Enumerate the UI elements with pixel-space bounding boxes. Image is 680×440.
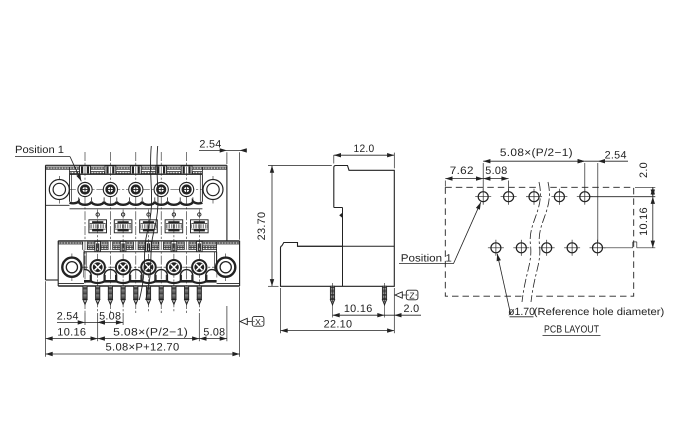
dimension 2.54 (row offset) bbox=[57, 310, 105, 324]
svg-text:12.0: 12.0 bbox=[354, 143, 375, 155]
svg-text:PCB LAYOUT: PCB LAYOUT bbox=[544, 325, 600, 336]
svg-text:10.16: 10.16 bbox=[344, 303, 373, 315]
dimension 23.70 (side view height) bbox=[256, 166, 332, 287]
dimension 5.08 (pcb pitch) bbox=[483, 165, 508, 191]
svg-text:2.0: 2.0 bbox=[638, 162, 650, 178]
datum flag Z bbox=[395, 290, 418, 300]
front view: break lines bbox=[139, 146, 158, 300]
dimension 2.54 (front view top right) bbox=[199, 139, 247, 240]
svg-text:22.10: 22.10 bbox=[324, 318, 353, 330]
dimension 5.08 (pin pitch) bbox=[98, 310, 123, 324]
svg-text:2.0: 2.0 bbox=[404, 303, 420, 315]
front view: lower row contacts bbox=[91, 260, 207, 274]
dimension 22.10 (side view overall) bbox=[281, 288, 395, 333]
svg-text:2.54: 2.54 bbox=[199, 139, 221, 151]
dimension 5.08x(P/2-1) (pcb) bbox=[483, 147, 585, 191]
svg-text:Z: Z bbox=[409, 291, 415, 301]
svg-text:2.54: 2.54 bbox=[605, 149, 627, 161]
svg-text:5.08×(P/2−1): 5.08×(P/2−1) bbox=[113, 326, 188, 338]
svg-text:7.62: 7.62 bbox=[450, 165, 474, 177]
dimension 5.08 (front view right) bbox=[199, 326, 227, 340]
front view: centerlines bbox=[52, 152, 235, 313]
front view: lower row polarizing tabs bbox=[95, 241, 202, 251]
front view: lower connector housing outline bbox=[58, 241, 239, 286]
svg-text:5.08×(P/2−1): 5.08×(P/2−1) bbox=[500, 147, 573, 159]
dimension 7.62 (pcb) bbox=[445, 165, 483, 187]
svg-text:Position 1: Position 1 bbox=[15, 144, 64, 156]
front view: upper row contacts bbox=[78, 182, 194, 196]
pcb layout: break lines bbox=[522, 182, 549, 302]
front view: wire clamp hatched openings bbox=[89, 220, 208, 233]
svg-text:Position 1: Position 1 bbox=[401, 252, 452, 264]
pcb layout: board outline (dashed) bbox=[445, 187, 633, 296]
front view: upper mounting bushings bbox=[49, 180, 223, 200]
leader: Position 1 (pcb) bbox=[399, 202, 481, 264]
front view: upper shroud scalloped edge bbox=[70, 197, 203, 208]
svg-text:5.08: 5.08 bbox=[99, 310, 121, 322]
front view: lower mounting bushings bbox=[62, 258, 235, 277]
front view: lower shroud striped band bbox=[58, 242, 239, 278]
svg-text:10.16: 10.16 bbox=[57, 326, 86, 338]
front view: upper-pin slots in lower band bbox=[83, 242, 189, 250]
svg-text:2.54: 2.54 bbox=[57, 310, 79, 322]
front view: wire entry pilot holes bbox=[96, 213, 201, 216]
front view: upper row polarizing tabs bbox=[80, 166, 192, 174]
front view: lower shroud pockets and arches bbox=[78, 270, 219, 283]
side view: solder pins bbox=[330, 283, 386, 318]
leader: hole diameter note bbox=[497, 254, 665, 319]
svg-text:5.08×P+12.70: 5.08×P+12.70 bbox=[106, 342, 180, 354]
caption: PCB LAYOUT bbox=[543, 325, 601, 336]
svg-text:(Reference hole diameter): (Reference hole diameter) bbox=[534, 307, 665, 318]
svg-text:10.16: 10.16 bbox=[638, 207, 650, 236]
pcb layout: hole pattern bbox=[475, 189, 605, 256]
datum flag X bbox=[240, 317, 264, 327]
dimension 2.54 (pcb) bbox=[578, 149, 628, 242]
dimension 10.16 (pcb rows) bbox=[604, 197, 655, 248]
dimension 5.08xP+12.70 (overall width) bbox=[46, 342, 240, 357]
svg-text:5.08: 5.08 bbox=[203, 326, 225, 338]
side view: housing profile bbox=[281, 166, 395, 287]
svg-text:23.70: 23.70 bbox=[256, 212, 268, 241]
svg-text:5.08: 5.08 bbox=[485, 165, 507, 177]
svg-text:X: X bbox=[255, 317, 261, 327]
front view: solder pins bbox=[83, 286, 201, 305]
dimension 2.0 (pcb top right) bbox=[590, 162, 655, 197]
dimension 10.16 bbox=[46, 326, 98, 340]
leader: Position 1 (front view) bbox=[15, 144, 81, 181]
dimension 10.16 (side view pin spacing) bbox=[333, 303, 385, 318]
dimension 5.08x(P/2-1) (front view) bbox=[98, 326, 200, 340]
dimension 2.0 (side view) bbox=[385, 288, 422, 333]
dimension 12.0 (side view) bbox=[334, 143, 395, 169]
front view: upper shroud striped band bbox=[46, 167, 227, 202]
extension lines (front view bottom) bbox=[46, 281, 240, 357]
front view: upper connector housing outline bbox=[46, 165, 227, 280]
